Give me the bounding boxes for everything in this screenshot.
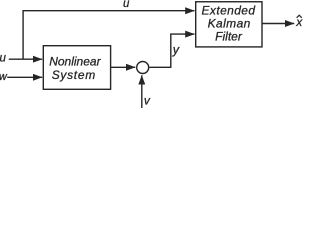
svg-text:u: u xyxy=(0,52,7,64)
svg-text:y: y xyxy=(172,43,180,57)
svg-text:Extended: Extended xyxy=(202,4,256,18)
svg-text:System: System xyxy=(52,68,96,82)
svg-text:Filter: Filter xyxy=(215,30,243,44)
svg-text:v: v xyxy=(144,93,151,107)
wire: w input line xyxy=(7,76,42,78)
wire: top u feedforward line xyxy=(23,11,194,60)
summing junction xyxy=(137,62,149,74)
svg-text:Nonlinear: Nonlinear xyxy=(49,55,101,69)
wire: v noise input from bottom xyxy=(141,75,143,108)
svg-text:u: u xyxy=(123,0,130,10)
wire: x-hat estimate output xyxy=(262,23,294,25)
svg-text:x: x xyxy=(295,15,303,29)
hat accent over x xyxy=(297,15,302,18)
block: Nonlinear System xyxy=(43,46,110,90)
wire: Nonlinear System output to sum junction xyxy=(111,66,135,68)
wire: y measurement line from sum to Extended Kalman Filter xyxy=(149,34,194,67)
svg-text:Kalman: Kalman xyxy=(208,17,251,31)
block: Extended Kalman Filter xyxy=(196,2,262,47)
svg-text:w: w xyxy=(0,71,8,83)
wire: u input line xyxy=(9,58,42,60)
